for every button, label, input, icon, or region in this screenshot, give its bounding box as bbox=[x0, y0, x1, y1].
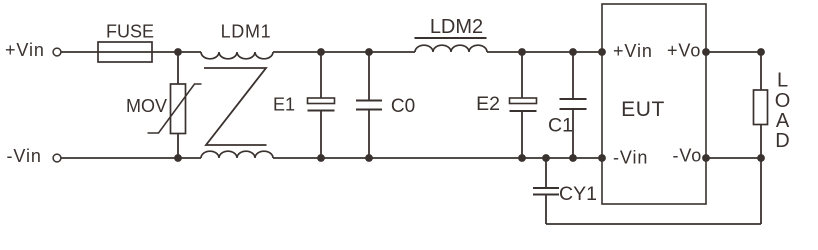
node CY1 junction bbox=[542, 154, 550, 162]
EUT box bbox=[602, 4, 706, 204]
svg-text:MOV: MOV bbox=[126, 96, 167, 116]
node EUT +Vin terminal bbox=[598, 48, 606, 56]
terminal -Vin bbox=[53, 154, 61, 162]
capacitor CY1 bbox=[533, 158, 559, 224]
svg-text:+Vin: +Vin bbox=[613, 41, 653, 61]
node load top bbox=[757, 48, 765, 56]
node EUT +Vo terminal bbox=[702, 48, 710, 56]
svg-text:A: A bbox=[776, 110, 790, 132]
svg-text:-Vin: -Vin bbox=[7, 146, 42, 166]
resistor LOAD bbox=[754, 52, 768, 158]
svg-text:C1: C1 bbox=[548, 115, 573, 137]
node EUT -Vo terminal bbox=[702, 154, 710, 162]
node C0 bottom bbox=[365, 154, 373, 162]
wire CY1 return bottom bbox=[546, 223, 761, 225]
svg-text:O: O bbox=[775, 90, 791, 112]
label LOAD bbox=[775, 70, 791, 153]
node E1 bottom bbox=[317, 154, 325, 162]
node load bottom bbox=[757, 154, 765, 162]
wire bottom rail middle bbox=[273, 157, 602, 159]
node E1 top bbox=[317, 48, 325, 56]
svg-text:EUT: EUT bbox=[621, 98, 665, 121]
capacitor C0 bbox=[356, 52, 382, 158]
svg-text:E2: E2 bbox=[476, 93, 500, 115]
svg-text:C0: C0 bbox=[391, 96, 415, 117]
node EUT -Vin terminal bbox=[598, 154, 606, 162]
inductor LDM1 top winding bbox=[201, 52, 273, 59]
svg-text:+Vo: +Vo bbox=[667, 41, 701, 61]
node C1 top bbox=[569, 48, 577, 56]
svg-text:-Vo: -Vo bbox=[673, 146, 703, 166]
capacitor E1 electrolytic bbox=[308, 52, 335, 158]
wire +Vo to load bbox=[706, 51, 761, 53]
node bottom MOV junction bbox=[174, 154, 182, 162]
inductor LDM2 bbox=[415, 38, 488, 52]
varistor MOV bbox=[148, 52, 202, 158]
wire bbox=[62, 51, 99, 53]
capacitor E2 electrolytic bbox=[510, 52, 537, 158]
node E2 top bbox=[518, 48, 526, 56]
svg-text:E1: E1 bbox=[273, 95, 295, 115]
wire bottom rail left bbox=[62, 157, 202, 159]
wire bbox=[152, 51, 201, 53]
svg-text:D: D bbox=[775, 130, 789, 152]
svg-text:FUSE: FUSE bbox=[106, 22, 154, 42]
wire -Vo to load bbox=[706, 157, 761, 159]
svg-text:LDM1: LDM1 bbox=[221, 22, 272, 42]
capacitor C1 bbox=[560, 52, 587, 158]
node top MOV junction bbox=[174, 48, 182, 56]
terminal +Vin bbox=[53, 48, 61, 56]
wire CY1 return right riser bbox=[760, 158, 762, 224]
node C1 bottom bbox=[569, 154, 577, 162]
wire bbox=[487, 51, 602, 53]
node E2 bottom bbox=[518, 154, 526, 162]
node C0 top bbox=[365, 48, 373, 56]
inductor LDM1 core Z bbox=[204, 68, 267, 145]
svg-text:LDM2: LDM2 bbox=[430, 16, 483, 38]
svg-text:CY1: CY1 bbox=[559, 183, 597, 205]
fuse FUSE bbox=[98, 42, 152, 62]
wire bbox=[273, 51, 415, 53]
inductor LDM1 bottom winding bbox=[201, 151, 273, 158]
svg-text:-Vin: -Vin bbox=[613, 148, 648, 168]
svg-text:+Vin: +Vin bbox=[5, 40, 45, 60]
svg-text:L: L bbox=[777, 70, 788, 92]
